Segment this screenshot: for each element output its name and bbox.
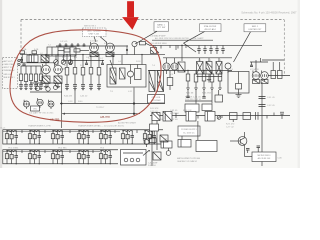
coil L1 hatched	[41, 55, 49, 62]
wire ant lead	[20, 62, 56, 64]
IF transformer Z2	[206, 62, 212, 75]
box right edge T6	[151, 45, 157, 53]
svg-text:ALIGN PER CHART: ALIGN PER CHART	[118, 121, 137, 124]
resistor bank R1-R5	[65, 55, 101, 90]
wire V7 row	[250, 58, 268, 66]
wire top bus left	[56, 45, 128, 47]
resistor RB5	[149, 131, 156, 143]
junction dots bank row	[70, 60, 103, 61]
diagonal wire to mixer	[184, 43, 197, 52]
choke CH1	[153, 152, 161, 160]
wire left-mid join	[30, 91, 62, 93]
IF transformer Z1	[197, 62, 204, 75]
svg-text:C-3 5-25: C-3 5-25	[60, 41, 67, 43]
caps on bank2 drops	[186, 96, 205, 98]
svg-text:C-77 .02: C-77 .02	[226, 126, 235, 128]
svg-text:V-2: V-2	[104, 43, 107, 45]
tube V2 oscillator	[106, 42, 115, 54]
svg-text:V-5 12AT7 HF OSC 3.5 MC: V-5 12AT7 HF OSC 3.5 MC	[29, 111, 54, 114]
svg-text:ANT 50-75: ANT 50-75	[3, 60, 12, 63]
box P2	[163, 112, 172, 122]
wire drop x61	[61, 83, 63, 128]
hatch under V2	[106, 52, 114, 57]
filter labels text row	[28, 121, 137, 127]
transistor Q2	[46, 83, 50, 91]
box P1	[152, 113, 160, 121]
svg-text:TRANSFORMER T-1 PRI: TRANSFORMER T-1 PRI	[28, 125, 51, 128]
resistor R71	[230, 113, 238, 123]
tube V7b	[261, 71, 269, 82]
capacitor C71	[256, 112, 259, 120]
wire vline x176	[175, 45, 177, 50]
wire BZ3 to BZ4	[181, 136, 183, 140]
resistor bank left RL1-RL5	[19, 66, 43, 90]
terminal text block left	[3, 60, 14, 79]
hatch P1	[152, 113, 160, 121]
trimmer C2	[61, 60, 66, 65]
diagonal ticks x150-163	[151, 50, 159, 53]
wire label line right	[152, 39, 213, 41]
svg-text:R-44 22K: R-44 22K	[64, 96, 73, 98]
wire top bus right	[150, 44, 262, 46]
svg-text:HB-7PB: HB-7PB	[50, 117, 60, 121]
svg-text:POWER SUPPLY: POWER SUPPLY	[181, 129, 198, 131]
wire bank col drop	[74, 90, 76, 104]
wire x198	[197, 121, 199, 140]
svg-text:R-89 150: R-89 150	[148, 165, 156, 167]
svg-text:455 KC ADJ: 455 KC ADJ	[204, 28, 215, 31]
box BZ4	[178, 140, 191, 148]
svg-text:R-71 470: R-71 470	[226, 124, 235, 126]
svg-text:V-1 6BE6: V-1 6BE6	[90, 41, 98, 43]
junction dots main bus	[29, 54, 220, 71]
callout box B2 (crystal filter)	[184, 24, 222, 43]
svg-text:R-23 470K: R-23 470K	[202, 93, 212, 95]
resistor R31	[236, 72, 242, 90]
shield box S1	[228, 72, 249, 94]
svg-text:C-82 40MF: C-82 40MF	[148, 162, 158, 164]
filter unit F2e	[99, 150, 112, 165]
wire bottom bus	[150, 115, 290, 117]
svg-text:OHM COAX: OHM COAX	[3, 63, 14, 66]
relay box K1	[27, 55, 38, 62]
ticks on bottom bus	[165, 113, 274, 120]
trimmer C61	[217, 116, 221, 120]
tube V9a	[163, 58, 170, 74]
filter unit F1g	[143, 130, 156, 145]
svg-text:L-12: L-12	[128, 91, 132, 93]
wire drop x157	[156, 112, 158, 150]
resistor R27 mid	[167, 71, 173, 91]
terminal E1	[18, 59, 20, 61]
wire right bus	[262, 59, 284, 61]
svg-text:A/B-7P8: A/B-7P8	[100, 115, 110, 119]
svg-text:R-21 1M: R-21 1M	[186, 93, 194, 95]
wire V7 top	[255, 60, 257, 72]
filter unit F2b	[28, 150, 41, 165]
capacitor C84	[257, 146, 261, 152]
svg-text:TP-1 3.5MC: TP-1 3.5MC	[8, 148, 19, 150]
resistor bank R21-R25	[186, 71, 222, 90]
text smudge right top	[150, 35, 168, 45]
filter unit F1c	[51, 130, 64, 145]
tube V9b	[171, 58, 178, 74]
svg-text:R-4: R-4	[74, 57, 77, 59]
tube V7a	[252, 71, 260, 82]
tube V4 converter	[54, 64, 63, 76]
svg-text:XTAL FILTER: XTAL FILTER	[204, 25, 217, 28]
filter unit F2c	[51, 150, 64, 165]
tube V5a osc	[24, 100, 30, 109]
svg-text:TP-2 7MC: TP-2 7MC	[58, 148, 67, 150]
filter unit F1b	[28, 130, 41, 145]
wire x262 tail	[261, 162, 263, 167]
filter unit F2d	[77, 150, 90, 165]
wire V4 riser	[57, 55, 59, 66]
node junction J1	[126, 49, 128, 51]
svg-text:C-35 .02: C-35 .02	[80, 96, 87, 98]
filter row 1 second bus	[3, 131, 121, 133]
svg-text:Schematic No. 4 p/n 120-46500: Schematic No. 4 p/n 120-46500 Received, …	[241, 10, 297, 14]
label box LB1	[252, 152, 276, 162]
dashed callout box D1 (tuning unit)	[83, 28, 108, 43]
filter unit F1a	[5, 130, 18, 145]
resistor R12	[74, 49, 89, 52]
left page edge shading	[0, 0, 2, 168]
ground G2	[56, 84, 60, 88]
ground G9	[236, 89, 242, 97]
coil box T1	[47, 47, 76, 56]
transformer tops Z1-Z3 wires	[200, 58, 219, 62]
svg-text:S-2 REAR: S-2 REAR	[170, 112, 179, 115]
wire V3 riser	[45, 55, 47, 66]
red arrow annotation	[122, 1, 139, 30]
tube V2b small	[132, 41, 137, 54]
extended bank drops	[196, 90, 212, 104]
box P4	[205, 112, 215, 122]
capacitor bank C21-C25	[197, 45, 224, 54]
filter row 2 second bus	[3, 151, 101, 153]
node dot NB	[133, 102, 135, 104]
sheet border dashed left	[20, 20, 22, 51]
box BZ2	[161, 141, 172, 148]
hatch P2	[163, 112, 172, 122]
wire V2 drop	[126, 45, 128, 54]
filter end box FB1	[121, 150, 147, 166]
svg-text:OSC-MIXER 6BE6: OSC-MIXER 6BE6	[150, 43, 168, 45]
box T8	[215, 90, 223, 102]
box T5	[178, 62, 185, 72]
svg-text:SER. 1: SER. 1	[252, 26, 259, 28]
resistor R18	[135, 65, 142, 80]
wire bank2 drops	[188, 90, 204, 97]
filter row2 ticks	[22, 150, 93, 153]
caps between bank cols	[69, 61, 104, 65]
hatch Z11	[185, 104, 199, 112]
text bottom right labels	[226, 124, 235, 129]
coil L8 hatched tall	[149, 71, 155, 92]
svg-text:UNIT T-101: UNIT T-101	[89, 33, 101, 35]
capacitor CL6	[22, 63, 25, 66]
coil L6 hatched	[110, 60, 116, 84]
filter unit F2a	[5, 150, 18, 165]
row1 left end vline	[2, 130, 4, 144]
wire vline x182	[181, 45, 183, 61]
wire bank row y60.5	[62, 60, 104, 62]
svg-text:C-62 .05: C-62 .05	[170, 110, 177, 112]
tube V1 mixer	[90, 42, 99, 54]
capacitor CA1	[20, 57, 23, 63]
resistor R33	[271, 62, 276, 79]
ground G1	[44, 84, 48, 88]
capacitor C83	[246, 149, 250, 154]
wire arrow line A	[62, 113, 140, 115]
row2 left end vline	[2, 150, 4, 164]
terminal E2	[18, 63, 20, 65]
resistor R72	[243, 113, 251, 120]
value box VB1	[148, 95, 165, 104]
tube V5b osc	[37, 98, 43, 108]
paper background	[0, 0, 300, 168]
svg-text:V-7 6AQ8: V-7 6AQ8	[250, 68, 260, 71]
filter unit F1e	[99, 130, 112, 145]
svg-text:R-2: R-2	[62, 57, 65, 59]
wire avc line	[268, 75, 290, 77]
svg-text:B+ 105V DC: B+ 105V DC	[183, 132, 195, 134]
callout box B1 (band 1 switch)	[135, 22, 169, 44]
box BZ1	[150, 124, 159, 131]
ticks on top bus right	[155, 45, 186, 48]
trimmer C1	[54, 60, 59, 65]
tube V5c osc	[48, 100, 54, 109]
hatch under V1	[90, 52, 98, 57]
box Z11	[185, 104, 199, 112]
svg-text:TRANSFORMER DETAIL — 1st and 2: TRANSFORMER DETAIL — 1st and 2nd IF, 455…	[78, 125, 125, 128]
filter row 1 bottom bus	[3, 143, 164, 145]
svg-text:SEE NOTE 3: SEE NOTE 3	[84, 26, 97, 28]
filter row1 ticks	[22, 130, 137, 133]
small comps x20-44 top	[20, 51, 37, 63]
svg-text:INPUT TO: INPUT TO	[3, 67, 12, 69]
wire left block bus	[21, 65, 41, 67]
sheet border right	[283, 20, 285, 77]
coil L4 hatched	[54, 76, 62, 84]
module outline M1	[107, 65, 146, 88]
box Z12	[202, 104, 212, 111]
node dot x182	[181, 45, 183, 47]
filter row 1 top bus	[3, 129, 164, 131]
filter row 2 top bus	[3, 149, 119, 151]
svg-text:OSC: OSC	[33, 109, 38, 111]
capacitor C8 box	[120, 68, 126, 79]
resistor R19	[140, 42, 151, 46]
svg-text:2-PT SW: 2-PT SW	[157, 27, 165, 29]
wire risers left row	[30, 55, 71, 60]
svg-text:ADJ R-88 10K: ADJ R-88 10K	[258, 157, 271, 160]
coil L3 hatched	[42, 76, 50, 84]
wire drop x134	[133, 88, 135, 114]
transformer bottoms line	[197, 76, 223, 78]
callout box B3 (noise limiter)	[234, 24, 266, 62]
resistor R11	[58, 49, 70, 52]
filter unit F1f	[121, 130, 134, 145]
diagonal arrow mark	[143, 150, 150, 156]
text row top of bottom bus	[170, 110, 192, 115]
svg-text:R-52 47K: R-52 47K	[150, 108, 159, 110]
svg-text:SEE NOTE 1: SEE NOTE 1	[3, 77, 14, 79]
resistor R34	[278, 62, 283, 79]
capacitor C72	[280, 112, 284, 119]
wire Q7-LB1	[244, 150, 246, 157]
svg-text:C-42 .05: C-42 .05	[267, 105, 276, 107]
sheet border dashed top	[21, 19, 284, 21]
node dot NC	[133, 113, 135, 115]
coil L9 hatched tall	[158, 71, 164, 92]
hatch under V7	[253, 80, 269, 84]
wire main bus	[20, 54, 165, 56]
trimmer C3	[68, 60, 73, 65]
text row under bank2	[186, 93, 212, 95]
text rows right-center lower	[185, 96, 202, 101]
svg-text:TP-3: TP-3	[100, 148, 104, 150]
box P3	[186, 112, 196, 122]
svg-text:C-41 .05: C-41 .05	[267, 97, 276, 99]
transistor Q7	[236, 137, 247, 146]
extra labels top band	[22, 41, 132, 98]
svg-text:MATCH XFMR T-9 PRI 600: MATCH XFMR T-9 PRI 600	[177, 157, 200, 160]
wire across transistors	[30, 82, 62, 84]
filter row 2 bottom bus	[3, 163, 119, 165]
svg-text:V-6 6BA6 IF AMP: V-6 6BA6 IF AMP	[150, 35, 166, 38]
svg-text:T-3: T-3	[110, 91, 113, 93]
wire drop x152	[151, 112, 153, 166]
ground GZ1	[207, 74, 211, 82]
wire LB1 left lead	[245, 156, 253, 158]
terminal dashed box	[3, 58, 18, 89]
svg-text:C-90: C-90	[278, 157, 282, 159]
wire module risers	[113, 55, 142, 65]
transistor Q1	[35, 83, 39, 91]
svg-text:METER ZERO: METER ZERO	[257, 155, 271, 157]
capacitor C42	[259, 105, 266, 107]
svg-text:L-2: L-2	[40, 53, 43, 55]
wire IF bus	[196, 57, 232, 59]
svg-text:LIMITER CKT: LIMITER CKT	[249, 29, 263, 31]
wire B+ drop	[261, 82, 263, 152]
tube V3 RF amp	[42, 64, 51, 76]
svg-text:BAND 1: BAND 1	[157, 24, 165, 27]
text rows under cluster	[177, 157, 200, 163]
wire bus right-center	[148, 70, 232, 72]
svg-text:T-1: T-1	[48, 45, 51, 47]
svg-text:TO PIN 7: TO PIN 7	[96, 107, 105, 109]
node dot NA	[61, 103, 63, 105]
tube V6 IF amp	[225, 63, 231, 73]
capacitor C41	[259, 97, 266, 99]
small caps on top line	[59, 43, 86, 46]
wire Q7 leads	[230, 132, 245, 150]
wire IF bus2	[163, 57, 196, 59]
scattered value labels	[64, 58, 260, 109]
box BZ5	[196, 141, 217, 152]
text bottom mid2	[148, 138, 167, 167]
text between rows	[8, 148, 104, 150]
transistor Q3	[128, 65, 134, 85]
osc box OB1	[31, 106, 40, 111]
callout box BZ3	[178, 126, 200, 136]
svg-text:OHM SEC 3.2 OHM VC: OHM SEC 3.2 OHM VC	[177, 161, 198, 163]
wire long mid line	[60, 103, 165, 105]
filter unit F1d	[77, 130, 90, 145]
IF transformer Z3	[216, 62, 222, 75]
svg-text:R-63 2.2K: R-63 2.2K	[183, 110, 192, 112]
red loop annotation	[10, 30, 161, 123]
transistor Q8	[166, 148, 171, 155]
wire y96 join	[185, 100, 212, 102]
transistor Q4	[54, 83, 58, 90]
transistor Q9	[143, 140, 149, 148]
box T13	[160, 135, 168, 142]
